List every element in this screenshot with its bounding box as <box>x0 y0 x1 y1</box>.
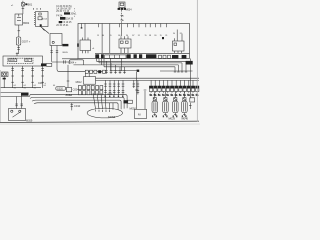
svg-text:F4 5A: F4 5A <box>56 15 63 18</box>
svg-text:M029: M029 <box>169 116 176 120</box>
svg-text:1: 1 <box>163 116 164 118</box>
svg-text:15: 15 <box>97 35 99 37</box>
svg-text:15: 15 <box>160 35 162 37</box>
svg-text:30: 30 <box>102 35 104 37</box>
svg-text:B005: B005 <box>63 52 69 54</box>
svg-text:30: 30 <box>173 33 175 35</box>
svg-text:C007 +: C007 + <box>22 40 31 44</box>
svg-text:B014: B014 <box>42 19 48 21</box>
svg-text:1A 15A 5A 257: 1A 15A 5A 257 <box>56 8 72 11</box>
svg-text:58: 58 <box>149 35 151 37</box>
svg-text:2: 2 <box>176 116 177 118</box>
svg-text:87: 87 <box>180 33 182 35</box>
svg-text:M055: M055 <box>108 115 116 119</box>
svg-text:C03A: C03A <box>66 93 73 97</box>
svg-text:C004: C004 <box>73 88 80 92</box>
svg-text:M059: M059 <box>26 119 33 122</box>
svg-text:M034: M034 <box>126 8 133 11</box>
svg-text:2: 2 <box>166 116 167 118</box>
svg-text:1: 1 <box>152 116 153 118</box>
svg-text:M012: M012 <box>76 81 83 84</box>
svg-text:15: 15 <box>110 35 112 37</box>
svg-text:M050: M050 <box>130 107 137 110</box>
svg-text:A8 M8: A8 M8 <box>10 59 15 62</box>
svg-text:C020: C020 <box>57 87 64 90</box>
svg-text:30: 30 <box>154 35 156 37</box>
svg-text:86: 86 <box>118 35 120 37</box>
svg-text:31: 31 <box>165 35 167 37</box>
svg-text:20 30 15 21: 20 30 15 21 <box>56 25 69 27</box>
svg-text:F6 10 25: F6 10 25 <box>62 22 72 24</box>
svg-text:15A 30: 15A 30 <box>66 18 74 21</box>
svg-text:B01: B01 <box>28 3 33 7</box>
svg-text:04 04: 04 04 <box>108 94 113 96</box>
svg-text:31: 31 <box>138 35 140 37</box>
svg-text:15: 15 <box>145 35 147 37</box>
svg-text:C010: C010 <box>74 104 81 108</box>
svg-text:30: 30 <box>126 35 128 37</box>
svg-text:20A 1: 20A 1 <box>71 13 78 16</box>
svg-text:B002: B002 <box>23 21 30 25</box>
svg-text:C004 +: C004 + <box>68 61 77 65</box>
svg-text:25 30 7.5 15: 25 30 7.5 15 <box>56 11 69 13</box>
svg-text:2: 2 <box>156 116 157 118</box>
svg-text:M046: M046 <box>182 116 189 120</box>
svg-text:87: 87 <box>132 35 134 37</box>
